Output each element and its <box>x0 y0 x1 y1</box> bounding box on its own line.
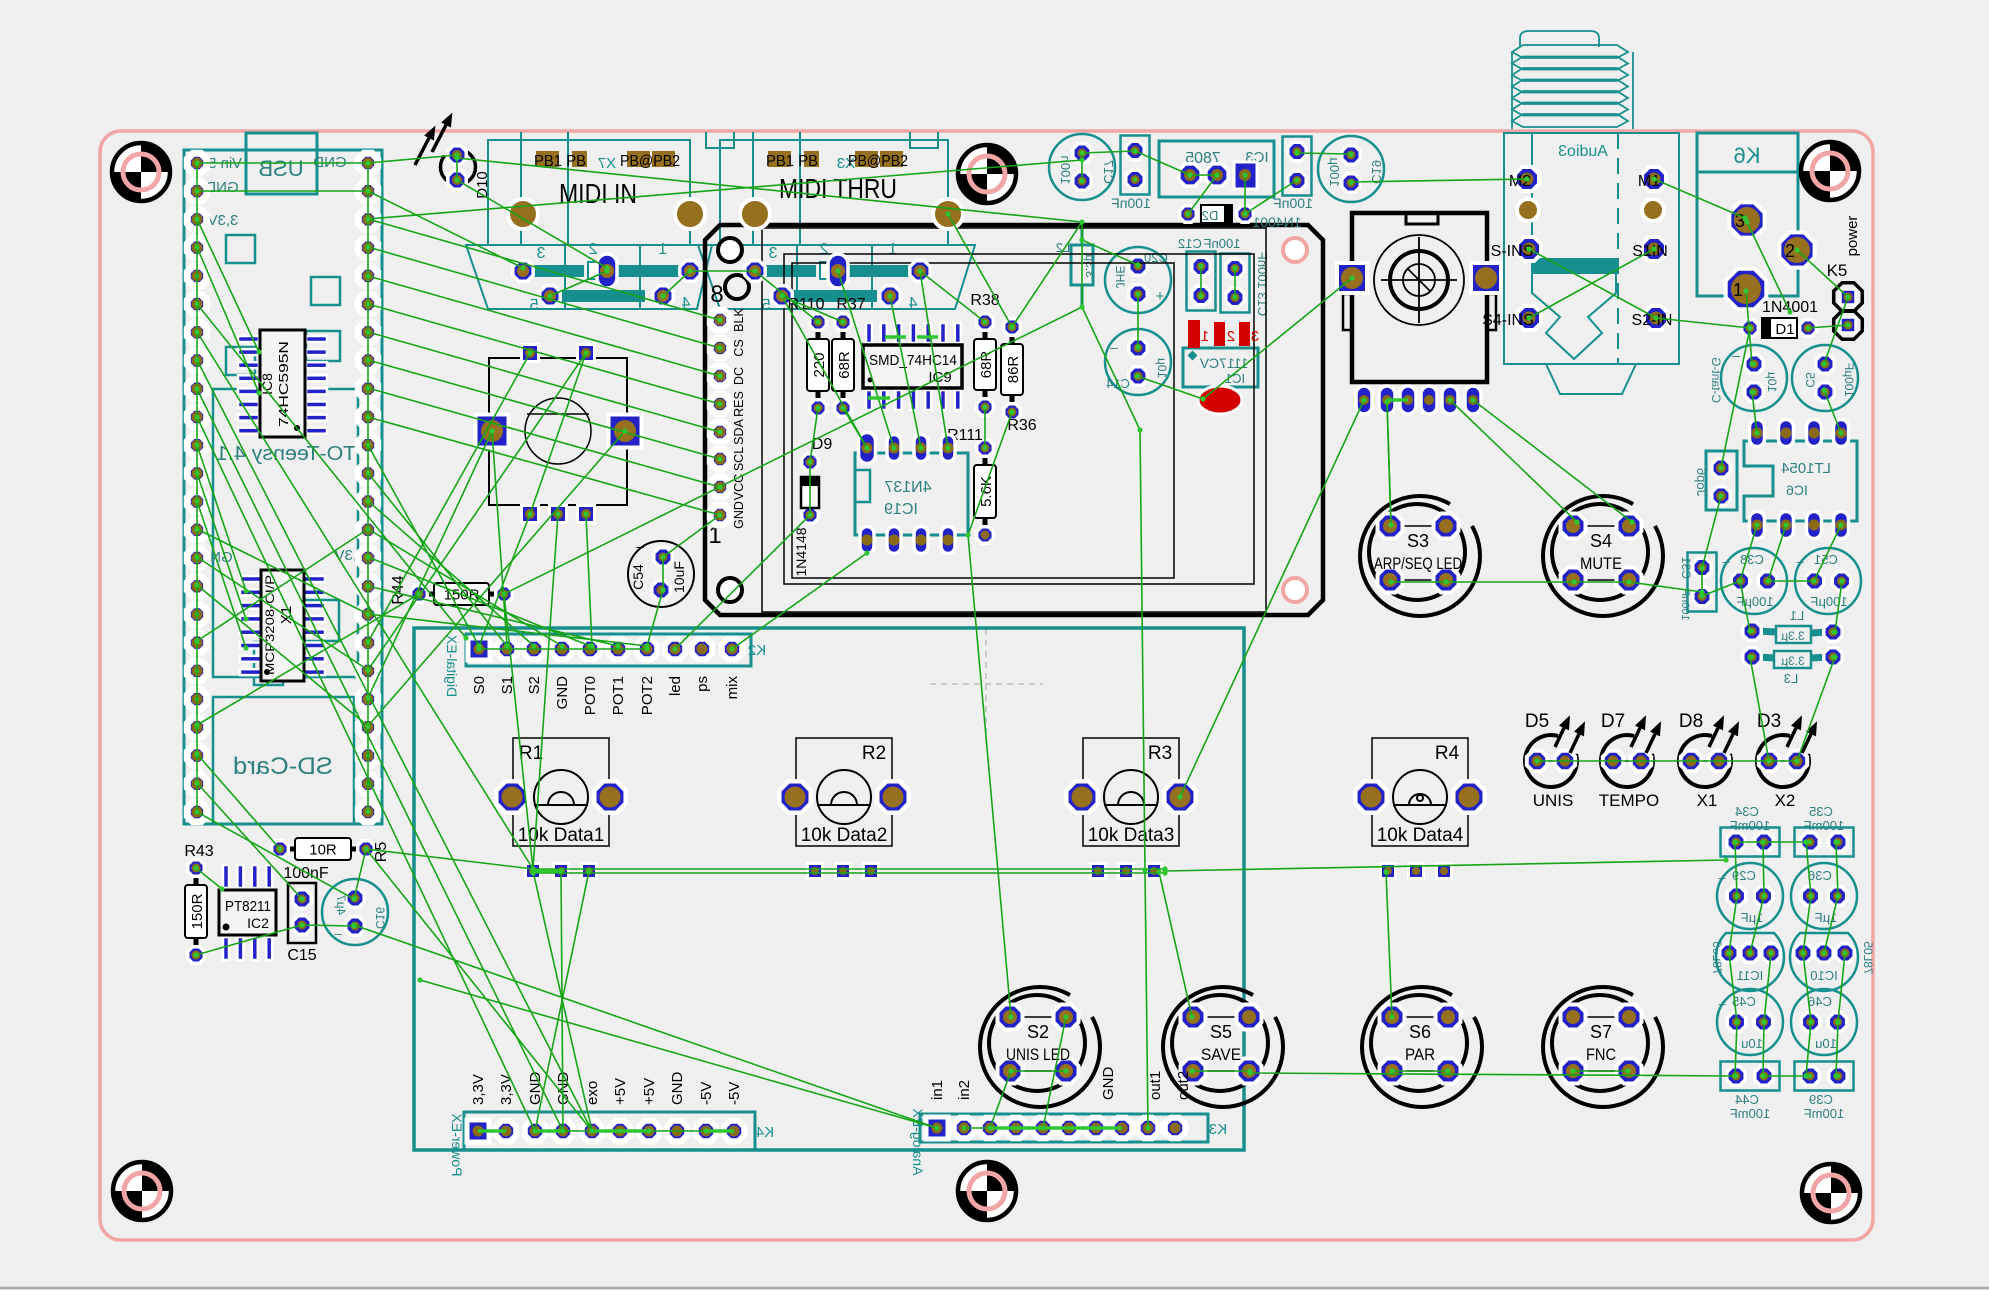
IC11 78L05 <box>1710 933 1784 991</box>
svg-text:1: 1 <box>658 241 667 258</box>
svg-text:100nF: 100nF <box>1204 236 1241 251</box>
K5 power header <box>1827 216 1863 340</box>
K4 header pads <box>467 1120 744 1142</box>
pushbutton S4 MUTE <box>1543 496 1663 616</box>
R37 resistor 68R <box>832 314 854 417</box>
wire <box>368 614 647 646</box>
pushbutton S3 ARP/SEQ LED <box>1360 496 1480 616</box>
wire <box>732 553 867 649</box>
IC1 1117CV regulator <box>1183 348 1258 387</box>
MIDI IN mounting holes <box>508 199 705 229</box>
svg-text:10µ: 10µ <box>1765 372 1779 392</box>
wire <box>1529 249 1654 318</box>
wire <box>368 529 562 646</box>
wire <box>354 849 366 899</box>
svg-text:X1: X1 <box>278 606 295 624</box>
svg-text:10k Data4: 10k Data4 <box>1377 825 1464 846</box>
wire <box>1180 400 1364 797</box>
K3 pin labels <box>929 1067 1192 1101</box>
wire <box>1768 525 1786 581</box>
fiducial top-left <box>112 143 170 201</box>
wire <box>1729 896 1737 953</box>
C20 capacitor <box>1105 247 1171 313</box>
display spacer circle <box>725 275 749 299</box>
svg-text:–: – <box>1110 339 1118 355</box>
wire <box>197 304 466 638</box>
wire <box>457 158 1082 222</box>
wire <box>1735 841 1763 843</box>
svg-text:S7: S7 <box>1590 1022 1612 1042</box>
wire <box>1203 278 1352 399</box>
wire <box>1797 250 1848 297</box>
wire <box>1721 328 1750 468</box>
wire <box>197 594 419 725</box>
wire <box>1746 291 1752 364</box>
wire <box>920 271 985 322</box>
svg-text:C19: C19 <box>1369 160 1384 184</box>
svg-text:R36: R36 <box>1007 417 1036 434</box>
wire <box>968 535 1011 1017</box>
svg-text:5.6K: 5.6K <box>978 476 995 507</box>
wire <box>890 296 921 448</box>
C5 capacitor 100uF <box>1792 345 1858 411</box>
rotary encoder S8 <box>1343 213 1496 382</box>
svg-text:in1: in1 <box>929 1080 946 1100</box>
R44 resistor 150R <box>390 575 512 605</box>
wire <box>1797 657 1835 761</box>
svg-text:R44: R44 <box>390 575 407 604</box>
wire <box>492 431 507 646</box>
wire <box>675 515 810 649</box>
wire <box>1145 870 1148 1128</box>
svg-text:C39: C39 <box>1809 1092 1833 1107</box>
wire <box>368 388 720 487</box>
IC10 pads <box>1794 944 1854 962</box>
wire <box>755 271 818 322</box>
wire <box>1702 581 1740 596</box>
board outline (Dimension layer) <box>100 131 1873 1240</box>
wire <box>197 585 368 726</box>
wire <box>368 160 1082 219</box>
wire <box>368 431 492 698</box>
wire <box>1735 1022 1737 1076</box>
wire <box>368 219 720 320</box>
wire bridge <box>535 1129 563 1133</box>
IC6 LT1054 <box>1744 441 1857 521</box>
svg-text:100µF: 100µF <box>1842 363 1856 397</box>
C14 capacitor 10u <box>1105 329 1171 395</box>
svg-text:S6: S6 <box>1409 1022 1431 1042</box>
svg-text:USB: USB <box>258 156 303 181</box>
MIDI THRU pads <box>745 254 930 306</box>
JP6 jumper <box>1694 451 1737 510</box>
svg-text:R110: R110 <box>787 296 824 313</box>
pushbutton S2 UNIS LED <box>980 987 1100 1107</box>
svg-text:100µF: 100µF <box>1736 594 1773 609</box>
R5 resistor 10R <box>272 838 390 862</box>
wire <box>197 332 533 869</box>
wire <box>663 271 690 296</box>
svg-text:1N4148: 1N4148 <box>793 527 809 576</box>
wire <box>563 1130 620 1132</box>
wire <box>1200 266 1202 296</box>
wire <box>1764 953 1771 1022</box>
svg-text:SAVE: SAVE <box>1201 1045 1241 1064</box>
svg-text:+5V: +5V <box>641 1078 658 1105</box>
svg-text:D5: D5 <box>1525 711 1549 732</box>
wire <box>1838 953 1845 1022</box>
svg-text:in2: in2 <box>956 1080 973 1100</box>
wire <box>196 868 222 889</box>
svg-text:100µ: 100µ <box>1327 157 1342 187</box>
wire <box>197 754 280 849</box>
svg-text:10µ: 10µ <box>1155 358 1169 378</box>
svg-text:L3: L3 <box>1784 671 1798 686</box>
pushbutton S6 PAR <box>1362 987 1482 1107</box>
X1 teal boxes <box>254 600 339 685</box>
IC9 SMD_74HC14 <box>863 323 962 410</box>
R43 resistor 150R <box>184 843 213 963</box>
svg-text:–: – <box>636 538 644 554</box>
wire <box>1387 402 1391 525</box>
C51 capacitor 100uF <box>1795 548 1861 614</box>
fiducial bottom-left <box>113 1162 171 1220</box>
wire <box>533 871 592 1131</box>
svg-text:3,3V: 3,3V <box>498 1074 515 1105</box>
svg-text:1N4001: 1N4001 <box>1252 214 1301 230</box>
wire <box>1729 953 1737 1022</box>
wire <box>1011 1070 1066 1072</box>
wire <box>1473 400 1632 522</box>
svg-text:100nF: 100nF <box>283 865 329 882</box>
svg-text:GND: GND <box>669 1072 686 1106</box>
svg-text:PT8211: PT8211 <box>225 898 271 915</box>
C45 capacitor 10u <box>1717 989 1783 1055</box>
wire <box>368 473 507 646</box>
svg-text:S5: S5 <box>1210 1022 1232 1042</box>
svg-text:ps: ps <box>694 676 711 692</box>
wire <box>197 783 302 899</box>
PB pads and labels MIDI THRU <box>766 151 908 170</box>
wire <box>197 389 563 1131</box>
wire <box>964 1127 990 1129</box>
X1 MCP3208-CI/P <box>240 570 325 681</box>
R111 resistor 5.6K <box>947 427 996 543</box>
wire <box>504 594 533 869</box>
svg-text:–: – <box>334 926 342 941</box>
svg-text:C16: C16 <box>373 907 387 929</box>
svg-text:D2: D2 <box>1202 208 1219 223</box>
wire <box>1835 581 1842 632</box>
svg-text:FNC: FNC <box>1586 1045 1616 1064</box>
wire <box>368 360 720 459</box>
wire <box>647 590 663 646</box>
svg-text:10k Data3: 10k Data3 <box>1088 825 1175 846</box>
wire <box>457 180 607 268</box>
wire <box>1836 842 1838 896</box>
wire <box>1297 153 1351 154</box>
bright net bridges <box>478 337 1408 1131</box>
svg-text:S3: S3 <box>1407 531 1429 551</box>
Audio3 jack outline <box>1504 133 1679 394</box>
wire bridge <box>990 1126 1122 1130</box>
wire <box>1740 525 1757 581</box>
svg-text:C51: C51 <box>1814 552 1838 567</box>
wire <box>561 871 563 1131</box>
wire <box>1701 568 1703 596</box>
display module outline <box>705 225 1323 615</box>
C17 capacitor 100n <box>1049 134 1116 200</box>
MIDI IN pads <box>513 254 700 306</box>
IC2 PT8211 <box>219 865 276 960</box>
svg-text:R4: R4 <box>1435 743 1460 764</box>
fiducial top-right <box>1801 142 1859 200</box>
wire <box>368 191 523 268</box>
svg-text:100nF: 100nF <box>1111 195 1151 211</box>
encoder pins <box>1356 386 1481 414</box>
wire <box>197 219 259 352</box>
MIDI THRU mounting holes <box>740 199 963 229</box>
K3 header pads <box>926 1117 1185 1139</box>
wire <box>1082 151 1135 153</box>
svg-text:3.3µ: 3.3µ <box>1781 629 1805 643</box>
svg-text:5: 5 <box>529 297 538 314</box>
K2 header Digital-EX <box>444 634 766 697</box>
Audio3 jack thread (outside board) <box>1512 31 1633 129</box>
svg-text:mix: mix <box>724 676 741 700</box>
svg-text:LT1054: LT1054 <box>1781 460 1831 477</box>
IC8 74HC595N <box>238 330 327 437</box>
svg-text:S2-IN: S2-IN <box>1632 312 1673 329</box>
display header pads <box>710 310 729 524</box>
svg-text:68R: 68R <box>836 351 853 379</box>
svg-text:PAR: PAR <box>1405 1045 1435 1064</box>
svg-text:GND: GND <box>732 501 746 529</box>
D9 diode 1N4148 <box>793 436 832 577</box>
K4 pin labels <box>470 1072 743 1106</box>
wire <box>197 162 368 164</box>
R36 resistor 86R <box>1001 319 1037 434</box>
C36 capacitor 1uF <box>1791 863 1857 929</box>
svg-text:3,3V: 3,3V <box>470 1074 487 1105</box>
potentiometer R2 10k Data2 <box>779 738 908 879</box>
D1 diode 1N4001 <box>1742 299 1818 338</box>
C-tant-G capacitor 10u <box>1709 345 1787 411</box>
wire bridge <box>917 335 938 339</box>
wire <box>1824 297 1848 364</box>
svg-text:Digital-EX: Digital-EX <box>444 634 460 697</box>
svg-text:power: power <box>1844 216 1861 257</box>
IC11 pads <box>1720 944 1780 962</box>
svg-text:8: 8 <box>710 281 723 308</box>
svg-text:78L05: 78L05 <box>1861 941 1875 975</box>
svg-text:Jop6: Jop6 <box>1694 468 1709 496</box>
wire <box>1250 1073 1735 1076</box>
svg-text:2: 2 <box>1227 328 1235 345</box>
svg-text:C17: C17 <box>1101 160 1116 184</box>
wire <box>1803 896 1811 953</box>
svg-text:L1: L1 <box>1790 608 1804 623</box>
teensy small squares <box>226 235 340 305</box>
svg-text:CS: CS <box>732 339 746 356</box>
svg-text:1: 1 <box>1201 328 1209 345</box>
wire <box>368 353 530 642</box>
svg-text:C12: C12 <box>1178 236 1202 251</box>
wire <box>782 296 867 448</box>
svg-text:MIDI THRU: MIDI THRU <box>779 173 897 204</box>
wire <box>368 247 720 348</box>
svg-text:–: – <box>1718 996 1726 1011</box>
svg-text:–: – <box>1796 554 1804 569</box>
wire <box>1752 392 1757 433</box>
wire <box>1763 841 1806 843</box>
wire <box>1763 1022 1764 1076</box>
C19 capacitor 100uF <box>1318 136 1384 202</box>
wire bridge <box>868 396 890 400</box>
svg-text:X2: X2 <box>1775 791 1796 810</box>
svg-text:10k Data2: 10k Data2 <box>801 825 888 846</box>
wire <box>550 271 607 296</box>
wire <box>1808 325 1848 328</box>
R110 resistor 220 <box>807 314 829 417</box>
svg-text:K5: K5 <box>1827 261 1848 280</box>
wire <box>504 307 1082 594</box>
svg-text:TEMPO: TEMPO <box>1599 791 1659 810</box>
IC3 7805 regulator <box>1159 141 1274 197</box>
wire <box>1735 842 1737 896</box>
svg-text:+: + <box>1155 288 1164 305</box>
svg-text:out1: out1 <box>1147 1071 1164 1100</box>
C12 capacitor 100nF <box>1178 236 1240 311</box>
C44 capacitor 100nF <box>1721 1062 1780 1122</box>
K2 pin labels <box>471 676 741 716</box>
svg-text:X1: X1 <box>1697 791 1718 810</box>
svg-text:+5V: +5V <box>612 1078 629 1105</box>
wire <box>367 163 369 811</box>
svg-text:100n: 100n <box>1058 156 1073 185</box>
svg-text:100mF: 100mF <box>1804 1106 1845 1121</box>
Teensy right pin row <box>358 153 377 821</box>
wire <box>1836 1022 1838 1076</box>
C34 capacitor 100nF <box>1721 804 1780 857</box>
wire <box>1081 153 1083 181</box>
wire <box>197 812 354 899</box>
SD-Card outline <box>213 697 354 824</box>
wire <box>368 557 590 646</box>
svg-text:GND: GND <box>554 676 571 710</box>
wire <box>920 271 948 448</box>
MIDI IN pin bars <box>531 265 681 302</box>
svg-text:Audio3: Audio3 <box>1558 143 1608 160</box>
svg-text:C44: C44 <box>1735 1092 1759 1107</box>
wire bridge <box>478 1129 506 1133</box>
svg-text:K2: K2 <box>748 642 766 659</box>
svg-text:C38: C38 <box>1740 552 1764 567</box>
big expansion keepout box <box>414 628 1244 1150</box>
IC19 pads <box>859 433 956 554</box>
wire <box>843 408 867 448</box>
svg-text:POT1: POT1 <box>610 676 627 715</box>
wire <box>809 462 811 515</box>
wire <box>984 407 986 448</box>
C13 capacitor 100nF <box>1221 252 1271 316</box>
LED D3 X2 <box>1757 711 1817 810</box>
svg-text:C54: C54 <box>630 564 646 590</box>
svg-text:K3: K3 <box>1209 1121 1227 1138</box>
wire <box>1244 175 1246 214</box>
wire <box>990 1071 1011 1128</box>
wire <box>1763 1075 1806 1077</box>
wire bridge <box>592 1129 649 1133</box>
wire <box>197 360 592 1131</box>
wire <box>1165 860 1726 871</box>
svg-text:POT2: POT2 <box>639 676 656 715</box>
fiducial bottom-right <box>1802 1164 1860 1222</box>
wire <box>368 586 618 646</box>
svg-text:M1: M1 <box>1638 173 1660 190</box>
wire <box>197 529 368 641</box>
wire <box>196 163 198 812</box>
wire <box>1351 179 1527 182</box>
wire <box>1082 240 1138 265</box>
wire <box>197 445 246 591</box>
svg-text:MIDI IN: MIDI IN <box>559 178 637 209</box>
wire <box>533 868 1165 870</box>
svg-text:S2: S2 <box>526 676 543 694</box>
wire <box>838 271 894 448</box>
svg-text:2: 2 <box>819 241 828 258</box>
wire <box>1140 430 1145 870</box>
wire bridge <box>1387 398 1408 402</box>
svg-text:D9: D9 <box>812 436 833 453</box>
LED D8 X1 <box>1679 711 1739 810</box>
svg-text:PB1 PB: PB1 PB <box>766 153 818 170</box>
svg-text:SCL: SCL <box>732 447 746 471</box>
svg-text:IC6: IC6 <box>1786 482 1808 498</box>
wire <box>368 501 534 646</box>
svg-text:C13 100nF: C13 100nF <box>1255 252 1270 316</box>
svg-text:-5V: -5V <box>726 1082 743 1105</box>
Teensy left pin row <box>187 153 206 821</box>
wire <box>197 529 368 614</box>
MIDI THRU pin bars <box>763 265 911 302</box>
wire <box>1081 222 1083 307</box>
pushbutton S7 FNC <box>1543 987 1663 1107</box>
svg-text:4: 4 <box>908 295 917 312</box>
svg-text:SD-Card: SD-Card <box>233 753 333 780</box>
potentiometer R1 10k Data1 <box>496 738 625 879</box>
wire <box>196 925 302 955</box>
wire <box>1245 180 1297 214</box>
svg-text:IC10: IC10 <box>1810 968 1837 983</box>
wire <box>368 155 457 163</box>
svg-text:3: 3 <box>1251 328 1259 345</box>
svg-text:100mF: 100mF <box>1730 1106 1771 1121</box>
svg-text:10uF: 10uF <box>671 561 687 593</box>
wire <box>535 871 589 1131</box>
C29 capacitor 1uF <box>1717 863 1783 929</box>
K6 jack pads <box>1726 202 1815 309</box>
svg-text:1: 1 <box>1733 280 1743 300</box>
wire <box>197 557 368 670</box>
wire <box>1803 953 1811 1022</box>
IC6 LT1054 pads <box>1750 420 1849 539</box>
svg-text:C-tant-G: C-tant-G <box>1709 357 1723 403</box>
svg-text:IC19: IC19 <box>884 501 918 518</box>
svg-text:K4: K4 <box>756 1124 774 1141</box>
svg-text:TO-Teensy 4.1: TO-Teensy 4.1 <box>216 443 356 465</box>
MIDI IN pin numbers <box>529 241 690 314</box>
